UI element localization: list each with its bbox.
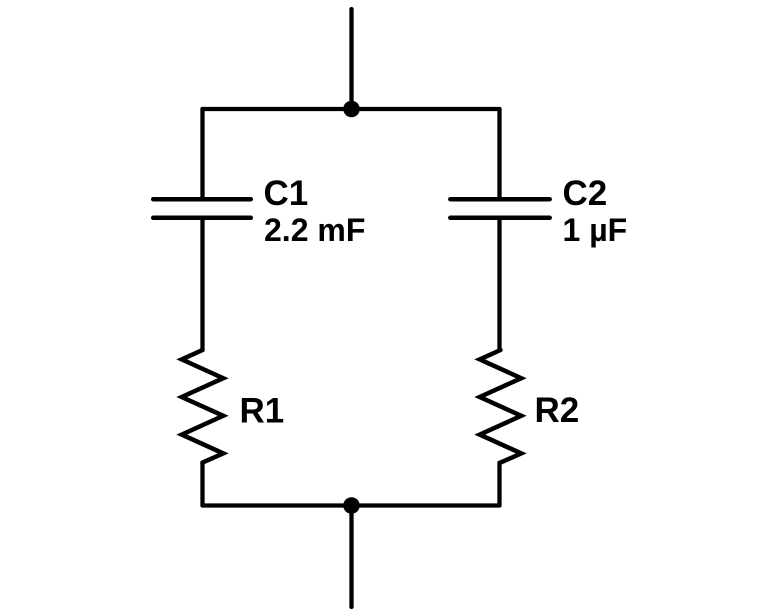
resistor R1 [182, 350, 224, 463]
wire: left branch upper (top rail to C1) [200, 109, 204, 199]
svg-text:C2: C2 [563, 174, 608, 213]
node: top junction [343, 101, 360, 118]
wire: right branch upper (top rail to C2) [497, 109, 501, 199]
svg-text:C1: C1 [264, 174, 309, 213]
wire: bottom rail [203, 503, 500, 507]
wire: R2 to bottom rail [497, 463, 501, 506]
capacitor C1 [153, 199, 251, 218]
wire: R1 to bottom rail [200, 463, 204, 506]
svg-text:R1: R1 [240, 392, 285, 431]
svg-text:R2: R2 [535, 391, 580, 430]
svg-text:2.2 mF: 2.2 mF [264, 212, 365, 248]
wire: C1 to R1 [200, 218, 204, 350]
svg-text:1 µF: 1 µF [563, 212, 628, 248]
resistor R2 [480, 350, 522, 463]
node: bottom junction [343, 497, 360, 514]
wire: bottom lead [349, 506, 353, 608]
wire: top lead [349, 9, 353, 109]
wire: C2 to R2 [497, 218, 501, 350]
capacitor C2 [450, 199, 549, 218]
wire: top rail [203, 107, 500, 111]
